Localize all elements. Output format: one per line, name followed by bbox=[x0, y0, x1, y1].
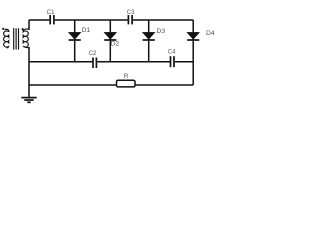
diode D2 bbox=[109, 20, 111, 62]
transformer T primary coil bbox=[4, 29, 9, 48]
wire top rail segment A bbox=[29, 19, 49, 21]
svg-text:R: R bbox=[124, 73, 129, 80]
capacitor C4 bbox=[170, 56, 172, 67]
wire top rail segment B bbox=[55, 19, 128, 21]
capacitor C3 bbox=[127, 15, 129, 24]
svg-text:C1: C1 bbox=[47, 10, 55, 16]
ground bbox=[28, 85, 30, 97]
wire middle rail centre segment bbox=[97, 61, 170, 63]
transformer secondary coil bbox=[23, 29, 29, 48]
transformer primary phase dot bbox=[2, 28, 4, 30]
svg-text:D4: D4 bbox=[206, 30, 215, 37]
svg-text:D2: D2 bbox=[111, 41, 120, 48]
capacitor C2 bbox=[92, 58, 94, 69]
wire top rail segment C bbox=[133, 19, 193, 21]
wire secondary top to top rail bbox=[28, 20, 30, 29]
diode D3 bbox=[148, 20, 150, 62]
svg-text:C3: C3 bbox=[127, 10, 135, 16]
diode D4 bbox=[187, 32, 199, 39]
svg-text:C4: C4 bbox=[168, 50, 176, 56]
svg-text:C2: C2 bbox=[89, 51, 97, 57]
wire right vertical bbox=[192, 20, 194, 85]
wire secondary bottom down left vertical bbox=[28, 48, 30, 86]
svg-text:D1: D1 bbox=[82, 27, 91, 34]
wire middle rail left segment bbox=[29, 61, 92, 63]
diode D1 bbox=[74, 20, 76, 62]
svg-text:D3: D3 bbox=[157, 28, 166, 35]
wire middle rail right segment bbox=[175, 61, 193, 63]
transformer core bbox=[13, 28, 15, 49]
wire bottom rail bbox=[29, 84, 193, 86]
resistor R bbox=[117, 80, 136, 87]
transformer secondary phase dot bbox=[22, 28, 24, 30]
capacitor C1 bbox=[49, 15, 51, 24]
